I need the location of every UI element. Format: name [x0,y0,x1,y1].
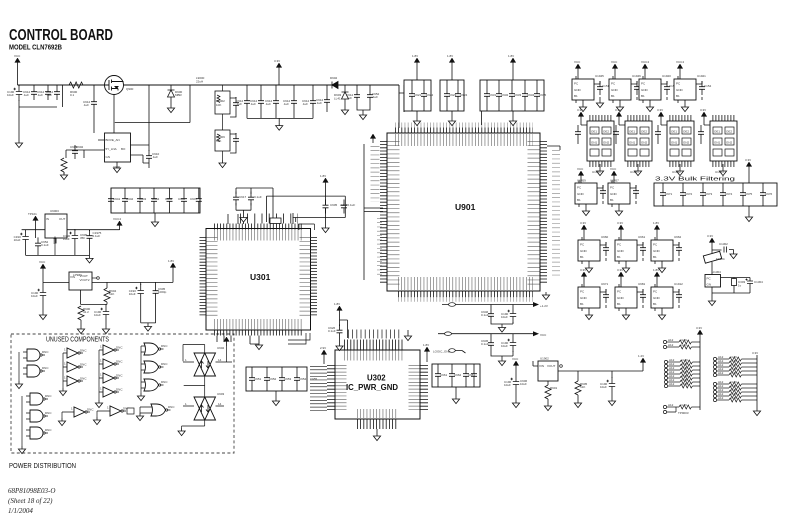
cap C1911 [600,377,615,393]
mid bank cap 3 [137,193,143,207]
regulator right wires [131,85,150,163]
svg-text:1.8V: 1.8V [412,54,418,58]
tp row R7 [713,384,748,390]
buffer U911 [63,362,87,373]
mid bank cap 5 [167,193,173,207]
svg-text:C1302: C1302 [719,242,728,246]
U302 left pin labels [336,365,347,412]
svg-text:C947: C947 [190,197,198,201]
svg-text:C905: C905 [330,203,338,207]
box cap C9008 [233,97,239,111]
bank A vcc [414,58,419,67]
svg-text:TP101: TP101 [28,212,37,216]
U901 right outside labels [552,150,560,278]
cap C1949 [501,307,516,323]
svg-text:1.2V: 1.2V [638,354,644,358]
svg-text:VCC: VCC [574,60,581,64]
right bank cap 3 [463,368,469,382]
row4 module U960 [578,221,609,273]
U301 bottom pin labels [214,319,303,330]
VCC input arrow [15,58,20,67]
svg-text:51K: 51K [216,139,221,143]
U901 left pin labels [388,141,400,285]
gate U918 OR [141,343,168,355]
buffer U913 [99,345,123,356]
svg-text:C974: C974 [725,192,733,196]
U301 top pins [214,224,303,230]
input cap C9004 [46,86,60,100]
cap wire [93,85,95,133]
cap C1908 ground [39,312,46,320]
bank feed wires [399,80,482,125]
bank C vcc [510,58,515,67]
svg-text:U1912: U1912 [674,282,683,286]
left input wires of regulator [66,140,105,158]
U302 top right ground [407,330,409,333]
svg-text:3.3V: 3.3V [700,108,706,112]
U302 left wires [310,366,327,411]
line +1.2V below U901 [442,302,548,308]
U302 bottom pins [357,419,397,429]
bottom rail [26,244,90,255]
cap C1960 [14,230,29,246]
svg-text:41.2: 41.2 [83,310,89,314]
svg-text:3.3V: 3.3V [752,351,758,355]
tp row L5 [664,366,699,372]
testpoint group left rail [699,339,701,410]
buffer U910 [63,348,87,359]
comparator vcc [224,337,229,346]
gate U909 NAND [26,427,52,439]
svg-text:IN: IN [46,217,49,221]
sense wire [115,85,190,123]
U901 left pins [380,141,387,285]
mid bank cap 1 [108,193,114,207]
svg-text:3.3V: 3.3V [580,221,586,225]
bank C cap 5 [534,88,540,102]
tp row L4 [664,362,699,368]
bank C cap 3 [509,88,515,102]
svg-text:U1459: U1459 [577,179,586,183]
svg-text:3.3V: 3.3V [615,108,621,112]
svg-text:1/1/2004: 1/1/2004 [8,507,33,515]
svg-text:LL41: LL41 [334,97,341,101]
svg-text:OUT: OUT [59,217,66,221]
C1952 ground [359,112,366,120]
net cap C1929 [323,200,329,214]
right bank ground [452,396,459,404]
svg-text:U960: U960 [601,235,609,239]
bulk cap 6 [760,187,766,201]
svg-text:C917: C917 [239,195,247,199]
U921 input wire [140,407,148,413]
svg-text:U302: U302 [367,374,386,383]
bank C ground [509,118,516,126]
U301 right pin labels [300,237,311,317]
bulk ground [745,214,752,222]
bulk vcc [746,162,751,171]
line VCC below U901 [438,331,547,337]
U302 top stubs [348,330,400,339]
buffer U914 [99,359,123,370]
svg-text:U903: U903 [217,392,225,396]
gate U920 OR [141,379,168,391]
VCC4 arrow [117,221,122,230]
left bank ground [272,398,279,406]
svg-text:1v: 1v [738,284,742,288]
cap C1947 [501,336,516,352]
IC U302 body [335,350,420,419]
gate U919 OR [141,361,168,373]
U302 right pins [420,365,428,412]
unused components dashed box [11,334,234,453]
mid bank cap 2 [122,193,128,207]
U901 top pin labels [395,134,533,146]
input cap C9003 [37,86,51,100]
U302 right pin labels [409,365,420,412]
svg-text:VCC4: VCC4 [641,60,649,64]
tp row L10 [663,403,698,409]
input ground [15,140,22,148]
svg-text:POWER DISTRIBUTION: POWER DISTRIBUTION [9,461,76,470]
resistor network U1950 [575,108,614,176]
1.8V arrow right of U302 [424,347,429,356]
col2 input rail [62,353,64,388]
cap C1905b [153,285,159,299]
svg-text:0.1uF: 0.1uF [328,329,336,333]
svg-text:VCC: VCC [14,54,21,58]
bank B vcc [449,58,454,67]
cap C1909 [63,229,78,245]
wire below U301 [250,336,259,345]
svg-text:LP980: LP980 [73,273,82,277]
1.8V net loop above U301 [267,196,346,222]
1.8V arrow [170,263,175,272]
bank C cap 2 [496,88,502,102]
svg-text:5Y_LNA: 5Y_LNA [106,147,117,151]
mid bank cap 4 [151,193,157,207]
1.8V net vcc [323,178,328,187]
bank B cap 1 [444,88,450,102]
svg-text:.1uF: .1uF [152,155,158,159]
diode D903 [334,85,349,107]
svg-text:U901: U901 [455,202,476,212]
svg-text:VCC: VCC [512,357,519,361]
small loop right [299,224,314,230]
svg-text:U1921: U1921 [697,74,706,78]
svg-text:C963: C963 [468,373,476,377]
svg-text:UNUSED COMPONENTS: UNUSED COMPONENTS [46,335,109,344]
gate U921 XOR lone [148,404,175,416]
bank B cap 2 [455,88,461,102]
wire to U301 pin [272,188,274,222]
bulk filtering box [654,171,777,214]
series boxes ground [219,160,226,168]
svg-text:C1304: C1304 [754,280,763,284]
buffer U915 [99,373,123,384]
bus cap C913 [265,95,279,109]
fuse F1304 [703,251,721,263]
C1906 ground [512,400,519,408]
tp row L9 [664,382,699,388]
svg-text:C922: C922 [426,93,434,97]
comparator pair U902 [183,353,224,376]
svg-text:C932: C932 [501,93,509,97]
U302 top pin labels [344,351,404,361]
left bank cap 2 [264,372,270,386]
svg-text:1.8V: 1.8V [653,268,659,272]
svg-text:3.3V: 3.3V [274,59,280,63]
U901 bottom pin labels [398,277,533,290]
U301 top long stubs [228,213,293,224]
TP wire [22,225,45,238]
1.8V arrow above U302 [337,306,342,315]
svg-text:U9003: U9003 [50,209,59,213]
resistor network U1953 [698,108,737,176]
svg-text:C941: C941 [113,197,121,201]
U301 bottom pins [214,330,303,336]
gate U905 AND [23,349,49,361]
svg-text:C955: C955 [310,377,318,381]
cap C1908 [31,286,46,302]
right column row1 module U1946 [609,60,647,112]
tp row R2 [713,359,748,365]
R1904 lower wire [81,302,107,304]
svg-text:VIN: VIN [539,364,544,368]
U901 right top wire [547,146,560,150]
C1952 rails [357,85,370,112]
resistor R9000 [69,82,83,88]
tp row L3 [664,358,699,364]
svg-text:U1902: U1902 [540,357,549,361]
svg-text:C973: C973 [705,192,713,196]
svg-text:3.3V: 3.3V [696,326,702,330]
line2 caps ground [498,358,505,366]
svg-text:C921: C921 [414,93,422,97]
svg-text:C952: C952 [269,377,277,381]
C1910 ground [102,326,109,334]
tp row R10 [713,396,748,402]
U302 bottom pin labels [357,409,397,418]
cap bank box B above U901 [440,67,464,118]
svg-text:D902: D902 [330,76,338,80]
svg-text:VOUT: VOUT [547,364,556,368]
small box above U301 [270,218,281,224]
mosfet drain wire [124,84,172,86]
input cap C9001 [7,85,22,101]
rail ground [86,255,93,263]
out wire [712,278,750,294]
svg-text:C942: C942 [126,197,134,201]
cap pair ground [240,215,247,223]
tp row R9 [713,392,748,398]
svg-text:U1945: U1945 [595,74,604,78]
left bank cap 1 [249,372,255,386]
bank A cap 1 [409,88,415,102]
LOGIC_GND stub [433,349,466,354]
svg-text:C923: C923 [449,93,457,97]
junction wire [63,85,106,107]
svg-text:U1457: U1457 [610,179,619,183]
testpoint group left 3.3V arrow [697,330,702,339]
regulator ground [116,162,118,165]
mosfet Q900 [105,76,134,95]
caps ground [144,324,151,332]
IC U301 body [206,229,311,331]
svg-text:0.1uF: 0.1uF [41,243,49,247]
diode D902 [329,76,338,89]
resistor R1900 [78,306,91,320]
VCC arrow 2nd reg [40,264,45,273]
col2 ground [59,388,66,396]
U9014 ground [58,418,65,426]
row5 module U981 [615,268,646,320]
svg-text:0.1uF: 0.1uF [481,313,489,317]
U902 wiring [183,345,232,398]
col4 ground [137,393,144,401]
bulk cap 1 [660,187,666,201]
boot cap C9006 [146,150,152,164]
gates col1 input wires [19,352,23,381]
row5 module U971 [578,268,609,320]
D903 ground [341,107,348,115]
U301 left pin labels [207,237,218,317]
buffer U9014 lone [70,407,94,418]
gate wire [113,95,115,134]
row4 module U961 [615,221,646,273]
mid bank cap 6 [181,193,187,207]
U301 top stubs [240,214,298,224]
buffer U912 [63,376,87,387]
svg-text:3.3V: 3.3V [657,108,663,112]
svg-text:3.3V: 3.3V [707,234,713,238]
diode D900 [168,85,183,105]
svg-text:0.1uF: 0.1uF [348,203,356,207]
input wire [17,67,19,85]
svg-text:0.1: 0.1 [70,93,75,97]
mid-left cap bank box [111,188,200,219]
cap bottom wire [143,163,149,168]
col3 input rail [98,350,100,400]
svg-text:68P81098E03-O: 68P81098E03-O [8,487,55,495]
svg-text:C154: C154 [704,84,712,88]
svg-text:GN: GN [707,283,712,287]
cap C1940 [35,238,41,252]
svg-text:1000p: 1000p [158,290,167,294]
svg-text:C934: C934 [527,93,535,97]
U901 left outside labels low [377,218,382,278]
U901 bottom right ground [542,292,549,300]
resistor R1904 [104,288,117,302]
right bank cap 4 [471,368,477,382]
tp row L11 circle [663,410,666,413]
svg-text:51K: 51K [109,292,114,296]
cap C1975 [87,230,93,244]
svg-text:2.9V: 2.9V [320,346,326,350]
tp row L2 [663,343,698,349]
U301 top pin labels [214,230,303,241]
U901 top pin numbers [395,123,533,128]
svg-text:GN: GN [106,155,111,159]
svg-text:U1946: U1946 [632,74,641,78]
bank C cap 1 [484,88,490,102]
right column row1 module U1921 [674,60,712,112]
TP101 testpoint [33,216,38,225]
resistor ground [63,172,65,174]
svg-text:C975: C975 [745,192,753,196]
cap pair C1917 C1918 [233,188,273,215]
svg-text:U1953: U1953 [715,170,724,174]
tp row R8 [713,388,748,394]
svg-text:C945: C945 [165,197,173,201]
R1901 ground [544,403,551,411]
bulk cap 3 [700,187,706,201]
col1 ground [15,381,22,389]
svg-text:VCC4: VCC4 [113,217,121,221]
resistor R9001 [61,158,67,172]
svg-text:10K: 10K [216,103,221,107]
cap C1906 [504,375,519,391]
cap C1303 [732,279,746,291]
gate U907 NAND [26,393,52,405]
resistor network U1951 [613,108,652,176]
U301 right pins [310,237,317,317]
mid bank ground [151,219,158,227]
svg-text:C151: C151 [602,84,610,88]
LDO out wire [92,272,173,288]
svg-text:C951: C951 [254,377,262,381]
col4 input rail [140,346,142,393]
col3 ground [95,400,102,408]
U903 wiring [182,420,205,428]
U1902 adj resistor R1901 [545,381,558,403]
svg-text:1.8V: 1.8V [447,54,453,58]
svg-text:U1950: U1950 [592,170,601,174]
svg-text:0.1uF: 0.1uF [481,342,489,346]
cap bank box C above U901 [480,67,544,118]
svg-text:F1304: F1304 [716,257,725,261]
input cap C9002 [23,86,37,100]
2.9V arrow left of U302 [321,350,326,359]
svg-text:U301: U301 [250,272,271,282]
svg-text:35F: 35F [80,236,85,240]
svg-text:IC_PWR_GND: IC_PWR_GND [346,383,398,392]
svg-text:C933: C933 [514,93,522,97]
cap C1304 [746,279,764,290]
svg-text:1.8V: 1.8V [320,174,326,178]
svg-text:22uH: 22uH [196,80,203,84]
IC U1304 [705,275,721,288]
svg-text:TP9003: TP9003 [678,411,689,415]
bus caps rails [247,85,313,123]
bulk cap 4 [720,187,726,201]
col1b ground [18,446,25,454]
right column row1 module U1945 [572,60,610,112]
wire to LDO [43,273,69,282]
svg-text:+1.2V: +1.2V [540,304,548,308]
R1905 ground [574,400,581,408]
cap bank right of U302 [432,364,480,396]
U302 left pins [327,365,335,412]
gate U908 NAND [26,410,52,422]
svg-text:U962: U962 [674,235,682,239]
cap C1903 [129,284,144,300]
svg-text:U1951: U1951 [630,170,639,174]
svg-text:C924: C924 [460,93,468,97]
svg-text:0.1uF: 0.1uF [93,234,101,238]
line2 cap stubs [512,334,514,336]
U901 vcc top left [370,134,375,143]
